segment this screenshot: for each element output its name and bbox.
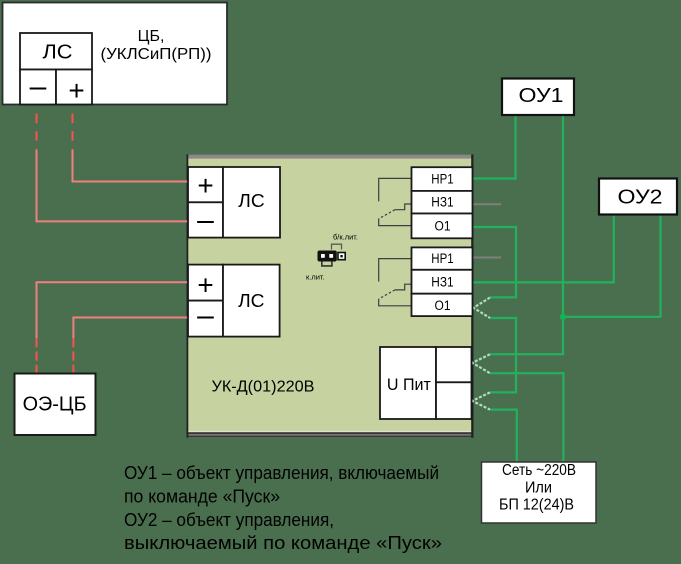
svg-text:б/к.лит.: б/к.лит. [333,233,358,242]
svg-text:ОУ2 – объект управления,: ОУ2 – объект управления, [124,510,334,530]
svg-text:U Пит: U Пит [387,376,431,394]
svg-text:НЗ1: НЗ1 [431,274,453,289]
svg-text:О1: О1 [435,298,451,313]
svg-text:НР1: НР1 [431,251,453,266]
svg-text:УК-Д(01)220В: УК-Д(01)220В [212,379,315,396]
svg-text:ОЭ-ЦБ: ОЭ-ЦБ [23,393,87,415]
svg-text:(УКЛСиП(РП)): (УКЛСиП(РП)) [101,46,212,63]
svg-text:+: + [68,75,84,106]
svg-text:–: – [197,299,214,332]
svg-text:ОУ2: ОУ2 [618,186,663,209]
svg-text:Сеть ~220В: Сеть ~220В [502,462,576,479]
svg-text:–: – [197,204,214,237]
svg-text:О1: О1 [435,218,451,233]
svg-text:БП 12(24)В: БП 12(24)В [499,497,574,514]
svg-text:НР1: НР1 [431,172,453,187]
svg-text:ОУ1 – объект управления, включ: ОУ1 – объект управления, включаемый [124,463,439,483]
svg-text:к.лит.: к.лит. [306,273,325,282]
svg-text:+: + [197,269,213,300]
svg-text:ОУ1: ОУ1 [519,84,564,107]
svg-text:выключаемый по команде «Пуск»: выключаемый по команде «Пуск» [124,533,442,553]
svg-text:Или: Или [525,480,552,497]
svg-text:НЗ1: НЗ1 [431,195,453,210]
svg-text:+: + [197,170,213,201]
svg-text:по команде «Пуск»: по команде «Пуск» [124,487,280,507]
svg-text:ЦБ,: ЦБ, [138,28,165,45]
svg-text:ЛС: ЛС [43,42,73,64]
svg-text:ЛС: ЛС [238,191,264,211]
svg-text:ЛС: ЛС [238,291,264,311]
svg-text:–: – [30,70,47,103]
